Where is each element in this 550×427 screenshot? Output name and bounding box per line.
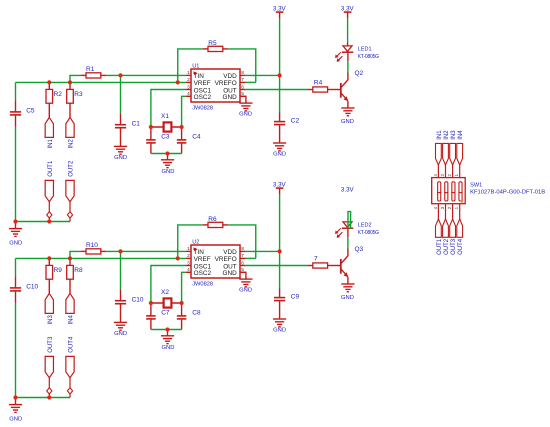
svg-text:R4: R4 [314, 80, 323, 87]
wire (pwr stub) [279, 12, 281, 19]
transistor Q3 [341, 256, 348, 277]
wire [245, 265, 307, 267]
wire [48, 202, 50, 212]
wire [228, 49, 256, 83]
svg-text:GND: GND [341, 119, 354, 125]
svg-text:C8: C8 [192, 310, 201, 317]
wire [245, 89, 307, 91]
SW1 polarity mark [461, 200, 463, 202]
wire [48, 394, 50, 397]
resistor 7 [313, 263, 328, 268]
U1 pin 6 OUT [240, 89, 245, 91]
wire [69, 378, 71, 388]
wire [70, 251, 81, 258]
connector SW1 body [432, 178, 466, 204]
wire [347, 61, 349, 72]
svg-text:8: 8 [241, 246, 244, 252]
svg-text:R3: R3 [74, 91, 83, 98]
svg-text:OSC2: OSC2 [194, 270, 212, 277]
svg-text:VREF: VREF [194, 256, 211, 263]
SW1 top pin wire IN1 [437, 165, 439, 178]
wire (pin) [81, 250, 86, 252]
U1 pin 4 OSC2 [186, 95, 191, 97]
svg-text:C7: C7 [161, 310, 170, 317]
U2 pin 8 VDD [240, 250, 245, 252]
U1 pin 7 VREFO [240, 81, 245, 83]
svg-text:GND: GND [222, 94, 237, 101]
svg-text:GND: GND [341, 295, 354, 301]
svg-text:2: 2 [187, 253, 190, 259]
SW1 slot 1 [438, 182, 441, 201]
wire [15, 127, 17, 222]
wire [228, 225, 256, 259]
svg-text:LED1: LED1 [358, 46, 372, 52]
svg-text:OUT3: OUT3 [451, 238, 457, 255]
U2 pin 2 VREF [186, 257, 191, 259]
net-port diamond [67, 388, 72, 394]
svg-text:Q3: Q3 [355, 246, 364, 253]
wire [15, 258, 17, 276]
svg-text:R2: R2 [54, 91, 63, 98]
wire (pwr stub) [347, 12, 349, 19]
port IN3 [45, 293, 53, 313]
capacitor C10 [10, 287, 21, 289]
U1 pin 3 OSC1 [186, 89, 191, 91]
capacitor C4 [177, 139, 187, 141]
transistor Q2 [341, 80, 348, 101]
svg-text:OUT4: OUT4 [69, 336, 75, 353]
U2 pin 6 OUT [240, 265, 245, 267]
junction [68, 256, 72, 260]
resistor R1 [86, 73, 101, 78]
svg-text:3: 3 [187, 84, 190, 90]
svg-text:JW0828: JW0828 [192, 105, 213, 111]
wire (cap pin) [150, 127, 152, 140]
svg-text:GND: GND [239, 287, 252, 293]
junction [47, 219, 51, 223]
wire (pwr stub) [279, 188, 281, 195]
wire (pin) [307, 89, 312, 91]
wire [70, 75, 81, 82]
ground [114, 146, 127, 154]
svg-text:VDD: VDD [223, 73, 237, 80]
svg-text:IN4: IN4 [69, 315, 75, 325]
resistor R10 [86, 249, 101, 254]
svg-text:C4: C4 [192, 134, 201, 141]
wire (pin) [81, 74, 86, 76]
svg-text:TIN: TIN [194, 73, 205, 80]
LED LED1 [342, 46, 354, 52]
junction [165, 327, 169, 331]
port OUT2 [66, 180, 74, 201]
wire (cap pin) [15, 116, 17, 127]
svg-text:3: 3 [187, 260, 190, 266]
wire [120, 251, 122, 289]
SW1 top pin wire IN4 [459, 165, 461, 178]
ground [9, 229, 22, 237]
wire [245, 250, 280, 252]
wire (pin5 gnd) [240, 272, 246, 279]
junction [278, 249, 282, 253]
svg-text:7: 7 [314, 256, 318, 263]
svg-text:OUT1: OUT1 [48, 160, 54, 177]
svg-text:TIN: TIN [194, 249, 205, 256]
U2 pin 1 TIN [186, 250, 191, 252]
port IN2 [66, 117, 74, 137]
wire (pin) [101, 74, 107, 76]
svg-text:R10: R10 [86, 242, 98, 249]
wire (led cathode) [347, 228, 349, 237]
power bar 3.3V [344, 11, 352, 13]
wire [15, 303, 17, 398]
wire [279, 195, 281, 252]
wire (pin) [328, 265, 340, 267]
ground [239, 279, 252, 287]
junction [149, 301, 153, 305]
ground [239, 103, 252, 111]
svg-text:OUT3: OUT3 [48, 336, 54, 353]
wire [106, 74, 186, 76]
port OUT2 [443, 219, 449, 237]
junction [176, 256, 180, 260]
port OUT3 [45, 356, 53, 377]
svg-text:X1: X1 [161, 113, 169, 120]
wire (cap pin) [120, 289, 122, 300]
U2 pin-1 marker [193, 247, 197, 251]
LED LED2 [342, 222, 354, 228]
junction [68, 80, 72, 84]
wire [245, 81, 256, 83]
wire (collector) [347, 73, 349, 81]
svg-text:7: 7 [241, 77, 244, 83]
svg-text:R6: R6 [208, 216, 217, 223]
junction [165, 151, 169, 155]
ground [114, 322, 127, 330]
svg-text:KT-0805G: KT-0805G [358, 230, 379, 236]
junction [47, 80, 51, 84]
svg-text:1: 1 [187, 70, 190, 76]
wire [69, 218, 71, 221]
port OUT1 [436, 219, 442, 237]
port OUT4 [457, 219, 463, 237]
U1 pin 1 TIN [186, 74, 191, 76]
wire (gnd stub) [167, 154, 169, 160]
wire [120, 75, 122, 113]
svg-text:OUT2: OUT2 [444, 238, 450, 255]
wire [245, 74, 280, 76]
capacitor C5 [10, 111, 21, 113]
wire [151, 153, 182, 155]
svg-text:GND: GND [239, 111, 252, 117]
wire (pin) [203, 224, 208, 226]
resistor R8 [67, 265, 74, 279]
wire [178, 49, 203, 83]
wire (emitter) [347, 277, 349, 284]
wire [16, 81, 187, 83]
svg-text:U1: U1 [192, 63, 199, 69]
svg-text:GND: GND [273, 327, 286, 333]
capacitor C8 [177, 315, 187, 317]
U1 pin 5 GND [240, 95, 245, 97]
port IN4 [66, 293, 74, 313]
svg-text:SW1: SW1 [470, 182, 482, 188]
junction [180, 125, 184, 129]
wire [48, 218, 50, 221]
ground [341, 284, 354, 292]
wire (pin) [307, 265, 312, 267]
SW1 bottom pin wire OUT3 [452, 204, 454, 219]
svg-text:1: 1 [187, 246, 190, 252]
svg-text:GND: GND [162, 345, 175, 351]
svg-text:7: 7 [241, 253, 244, 259]
wire (cap pin) [181, 127, 183, 140]
wire (cap pin) [150, 320, 152, 330]
wire (cap pin) [279, 289, 281, 298]
wire [69, 394, 71, 397]
SW1 slot 2 [445, 182, 448, 201]
ground [161, 160, 174, 168]
ground [9, 405, 22, 413]
resistor R5 [208, 46, 223, 51]
U1 pin 8 VDD [240, 74, 245, 76]
wire [347, 237, 349, 248]
wire [48, 103, 50, 117]
svg-text:X2: X2 [161, 289, 169, 296]
wire (pin) [223, 224, 228, 226]
wire [279, 19, 281, 76]
wire (cap pin) [279, 125, 281, 143]
junction [149, 125, 153, 129]
svg-text:VREF: VREF [194, 80, 211, 87]
wire [15, 82, 17, 100]
wire [182, 96, 186, 127]
svg-text:OUT2: OUT2 [69, 160, 75, 177]
wire (led anode) [347, 42, 349, 46]
wire (pin) [223, 48, 228, 50]
junction [118, 249, 122, 253]
svg-text:VDD: VDD [223, 249, 237, 256]
svg-text:GND: GND [222, 270, 237, 277]
wire [151, 126, 182, 128]
wire [69, 202, 71, 212]
capacitor C7 [146, 315, 156, 317]
op-amp/IC U2 JW0828 [191, 245, 240, 278]
power bar 3.3V [276, 11, 284, 13]
svg-text:8: 8 [241, 70, 244, 76]
port OUT4 [66, 356, 74, 377]
wire (hook above LED2) [348, 212, 351, 229]
SW1 bottom pin wire OUT1 [437, 204, 439, 219]
svg-text:VREFO: VREFO [215, 80, 237, 87]
wire [16, 257, 187, 259]
wire [279, 75, 281, 112]
port IN1 [45, 117, 53, 137]
svg-text:6: 6 [241, 84, 244, 90]
junction [180, 301, 184, 305]
wire [48, 279, 50, 293]
junction [47, 256, 51, 260]
svg-text:GND: GND [162, 169, 175, 175]
wire [151, 329, 182, 331]
wire (cap pin) [181, 144, 183, 154]
wire (cap pin) [181, 303, 183, 316]
port IN2 flag [443, 143, 449, 165]
wire [16, 397, 71, 399]
svg-text:OSC2: OSC2 [194, 94, 212, 101]
svg-text:C9: C9 [291, 293, 300, 300]
U2 pin 7 VREFO [240, 257, 245, 259]
wire [151, 266, 186, 304]
svg-text:IN4: IN4 [458, 130, 464, 140]
wire [151, 302, 182, 304]
wire (gnd stub) [15, 398, 17, 405]
ground [341, 108, 354, 116]
port OUT1 [45, 180, 53, 201]
junction [13, 219, 17, 223]
svg-text:GND: GND [9, 417, 22, 423]
wire (cap pin) [279, 113, 281, 122]
svg-text:R9: R9 [54, 267, 63, 274]
svg-text:R5: R5 [208, 40, 217, 47]
wire [16, 221, 71, 223]
svg-text:GND: GND [114, 155, 127, 161]
wire [69, 82, 71, 89]
svg-text:GND: GND [9, 241, 22, 247]
wire (cap pin) [15, 276, 17, 287]
port OUT3 [450, 219, 456, 237]
wire (gnd stub) [167, 330, 169, 336]
wire [106, 250, 186, 252]
svg-text:C10: C10 [26, 283, 38, 290]
junction [47, 395, 51, 399]
wire [182, 272, 186, 303]
port IN3 flag [450, 143, 456, 165]
net-port diamond [47, 388, 52, 394]
wire (pin) [328, 89, 340, 91]
wire (emitter) [347, 101, 349, 108]
svg-text:KT-0805G: KT-0805G [358, 54, 379, 60]
U1 pin-1 marker [193, 71, 197, 75]
wire [69, 258, 71, 265]
port IN1 flag [436, 143, 442, 165]
ground [273, 143, 286, 151]
SW1 top pin wire IN2 [445, 165, 447, 178]
U2 pin 4 OSC2 [186, 271, 191, 273]
resistor R9 [46, 265, 53, 279]
wire (cap pin) [120, 128, 122, 146]
wire [245, 257, 256, 259]
svg-text:OUT4: OUT4 [458, 238, 464, 255]
capacitor C10 [115, 300, 126, 302]
wire (cap pin) [150, 303, 152, 316]
SW1 slot 3 [452, 182, 455, 201]
SW1 slot 4 [459, 182, 462, 201]
wire [48, 378, 50, 388]
wire (cap pin) [120, 304, 122, 322]
SW1 bottom pin wire OUT4 [459, 204, 461, 219]
wire [48, 258, 50, 265]
power bar 3.3V [276, 187, 284, 189]
capacitor C2 [274, 121, 285, 123]
resistor R3 [67, 89, 74, 103]
svg-text:4: 4 [187, 267, 190, 273]
wire [48, 82, 50, 89]
svg-text:GND: GND [273, 151, 286, 157]
svg-text:IN2: IN2 [444, 130, 450, 140]
wire (gnd stub) [15, 222, 17, 229]
svg-text:C3: C3 [161, 134, 170, 141]
wire (pin5 gnd) [240, 96, 246, 103]
net-port diamond [47, 212, 52, 218]
SW1 bottom pin wire OUT2 [445, 204, 447, 219]
wire (cap pin) [279, 301, 281, 319]
svg-text:4: 4 [187, 91, 190, 97]
svg-text:3.3V: 3.3V [341, 186, 355, 193]
capacitor C1 [115, 124, 126, 126]
resistor R6 [208, 222, 223, 227]
junction [176, 80, 180, 84]
svg-text:C2: C2 [291, 117, 300, 124]
svg-text:IN3: IN3 [451, 130, 457, 140]
wire [178, 225, 203, 259]
wire (collector) [347, 249, 349, 257]
svg-text:IN3: IN3 [48, 315, 54, 325]
svg-text:JW0828: JW0828 [192, 281, 213, 287]
ground [273, 319, 286, 327]
svg-text:IN1: IN1 [48, 139, 54, 149]
port IN4 flag [457, 143, 463, 165]
wire (pin) [203, 48, 208, 50]
capacitor C9 [274, 297, 285, 299]
U2 pin 3 OSC1 [186, 265, 191, 267]
wire (pin) [101, 250, 107, 252]
svg-text:KF1027B-04P-G00-DFT-01B: KF1027B-04P-G00-DFT-01B [470, 190, 545, 196]
svg-text:C5: C5 [26, 107, 35, 114]
crystal X1 [164, 122, 172, 131]
net-port diamond [67, 212, 72, 218]
svg-text:6: 6 [241, 260, 244, 266]
svg-text:IN1: IN1 [437, 130, 443, 140]
capacitor C3 [146, 139, 156, 141]
wire [347, 19, 349, 43]
svg-text:C1: C1 [132, 120, 141, 127]
crystal X2 [164, 298, 172, 307]
op-amp/IC U1 JW0828 [191, 69, 240, 102]
svg-text:OUT1: OUT1 [437, 238, 443, 255]
resistor R4 [313, 87, 328, 92]
wire (cap pin) [150, 144, 152, 154]
wire (cap pin) [181, 320, 183, 330]
svg-text:GND: GND [114, 331, 127, 337]
svg-text:R1: R1 [86, 66, 95, 73]
wire [151, 90, 186, 128]
wire (led cathode) [347, 52, 349, 61]
svg-text:R8: R8 [74, 267, 83, 274]
junction [118, 73, 122, 77]
U2 pin 5 GND [240, 271, 245, 273]
svg-text:VREFO: VREFO [215, 256, 237, 263]
svg-text:C10: C10 [132, 296, 144, 303]
wire [279, 251, 281, 288]
wire [69, 103, 71, 117]
ground [161, 336, 174, 344]
svg-text:IN2: IN2 [69, 139, 75, 149]
svg-text:LED2: LED2 [358, 222, 372, 228]
wire [69, 279, 71, 293]
svg-text:2: 2 [187, 77, 190, 83]
wire (cap pin) [15, 100, 17, 111]
resistor R2 [46, 89, 53, 103]
